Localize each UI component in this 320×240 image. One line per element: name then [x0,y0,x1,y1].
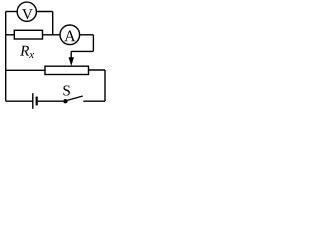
rheostat slider arrowhead [69,57,75,66]
battery long plate [32,93,34,109]
wire resistor Rx to ammeter [43,34,61,36]
wire top from left corner to voltmeter [6,11,18,13]
wire left vertical [5,12,7,102]
wire bottom left to battery [6,100,33,102]
wire down at right of ammeter [92,35,94,52]
wire voltmeter to top-right corner [36,11,52,13]
label Rx [20,46,29,56]
switch S lever [67,96,83,101]
wire rheostat to right corner [89,69,106,71]
label Rx subscript x [29,53,34,58]
wire slider stem [70,51,72,58]
wire left to resistor Rx [6,34,15,36]
label A of ammeter [64,31,75,42]
switch S pivot dot [63,99,67,103]
wire left to rheostat [6,69,45,71]
label S of switch [63,85,69,95]
wire vertical down to node [52,12,54,35]
rheostat body [45,66,89,74]
wire right vertical [104,70,106,101]
label V of voltmeter [22,9,33,19]
wire left along slider feed [71,50,93,52]
resistor Rx body [14,30,42,39]
wire battery to switch [38,100,64,102]
wire switch to bottom right corner [83,100,105,102]
wire ammeter right [80,34,94,36]
voltmeter V [17,2,36,21]
ammeter A [60,25,80,45]
battery short plate [36,97,38,106]
